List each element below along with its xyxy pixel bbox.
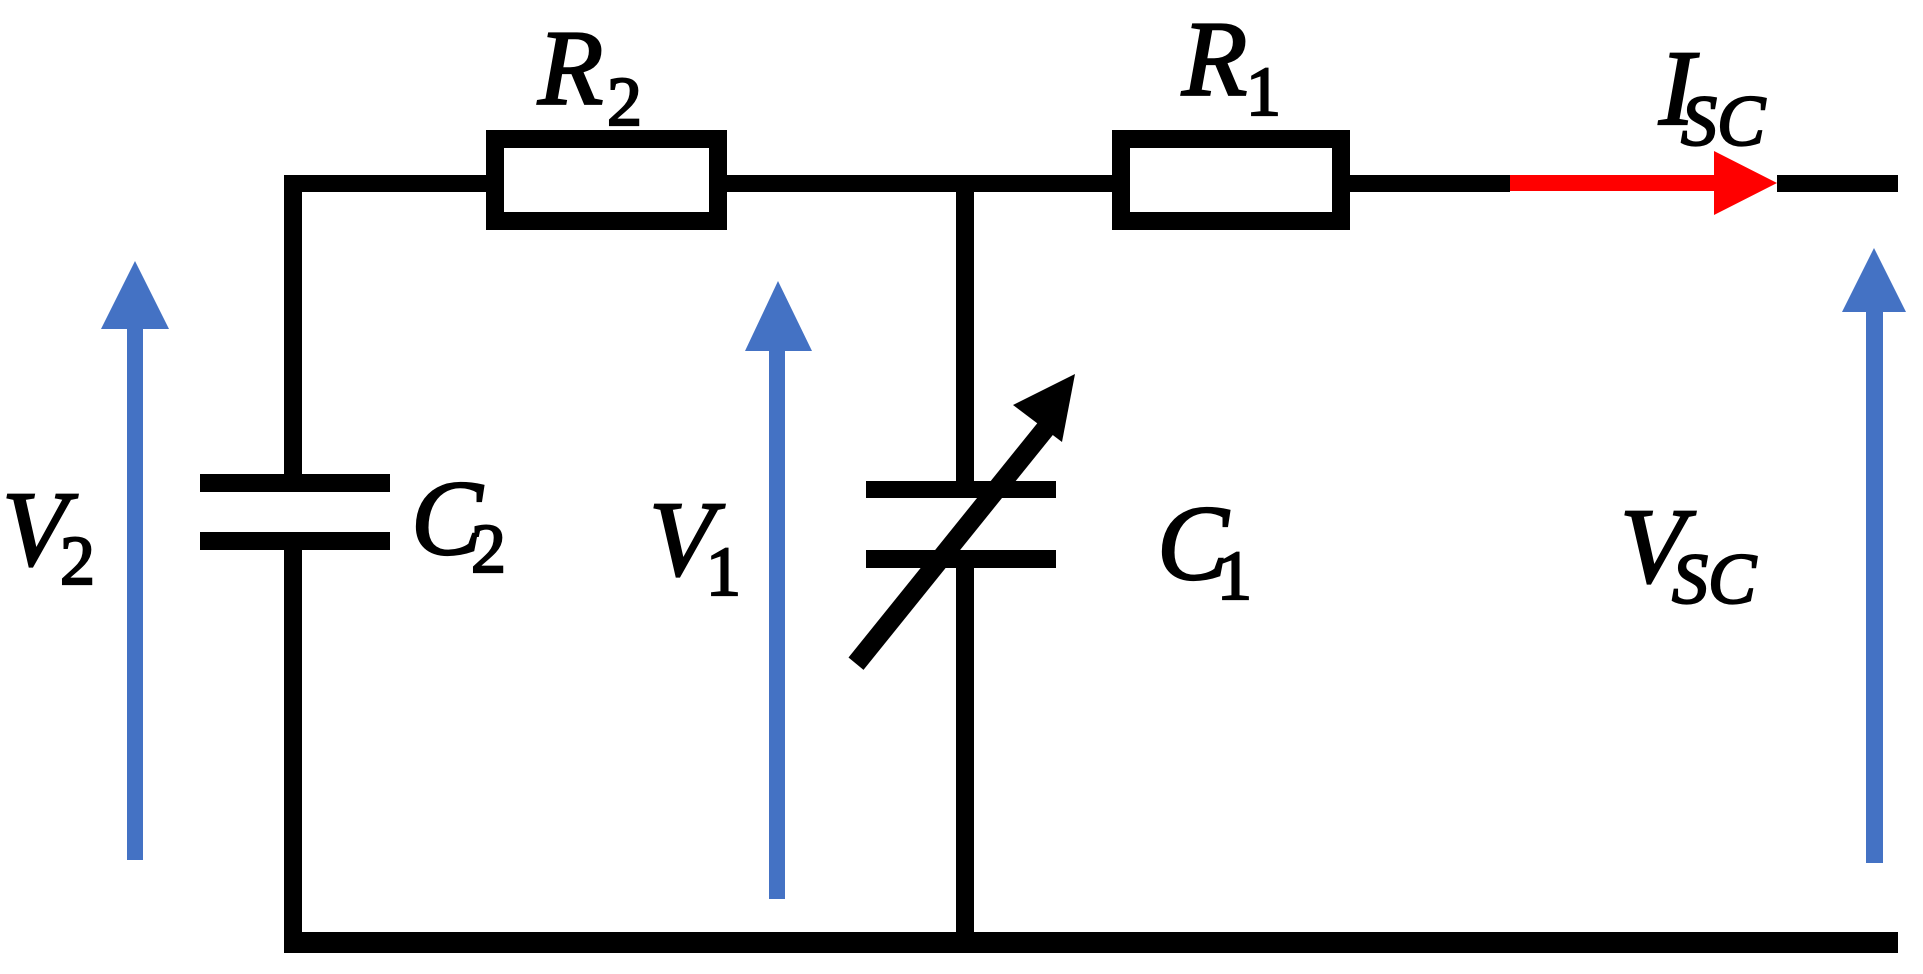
svg-text:1: 1 (1246, 54, 1281, 131)
current arrow I_SC (1510, 151, 1777, 215)
wire bottom horizontal (284, 932, 1898, 953)
voltage arrow V1 (745, 281, 812, 899)
svg-text:2: 2 (607, 64, 642, 141)
label R1 (1181, 1, 1281, 131)
svg-text:R: R (537, 10, 603, 128)
wire top-right output terminal (1777, 175, 1898, 192)
label V_SC (1620, 488, 1757, 619)
resistor R1 (1112, 130, 1350, 230)
capacitor C2 (200, 474, 390, 550)
svg-text:R: R (1181, 1, 1247, 119)
label R2 (537, 10, 642, 141)
wire middle vertical lower (956, 568, 974, 953)
svg-text:2: 2 (471, 511, 506, 588)
voltage arrow V_SC (1842, 248, 1906, 863)
svg-text:SC: SC (1672, 539, 1757, 619)
label I_SC (1658, 30, 1766, 161)
wire left vertical upper (284, 175, 302, 474)
capacitor C1 variable (849, 374, 1076, 670)
wire left vertical lower (284, 550, 302, 953)
wire R1 to current arrow (1350, 175, 1510, 192)
label V1 (649, 481, 741, 611)
voltage arrow V2 (101, 261, 169, 860)
svg-text:1: 1 (1217, 538, 1252, 615)
label C2 (411, 460, 506, 588)
label C1 (1157, 485, 1252, 615)
svg-text:1: 1 (706, 534, 741, 611)
wire middle vertical upper (956, 192, 974, 481)
wire top-middle horizontal (R2 to R1) (727, 175, 1112, 192)
svg-text:SC: SC (1681, 81, 1766, 161)
label V2 (2, 471, 95, 600)
wire top-left horizontal (node V2 to R2) (284, 175, 486, 192)
resistor R2 (486, 130, 727, 230)
svg-text:2: 2 (60, 523, 95, 600)
